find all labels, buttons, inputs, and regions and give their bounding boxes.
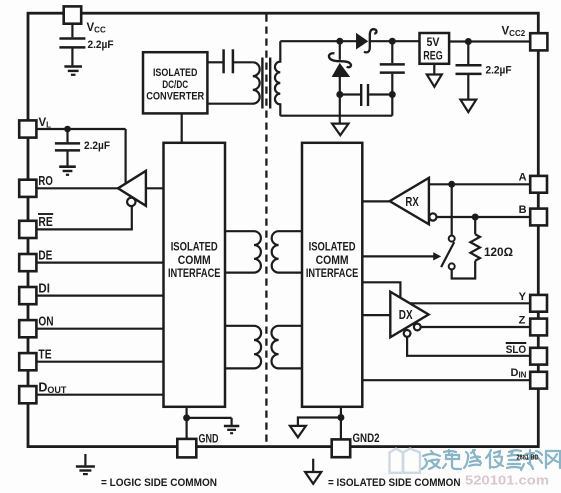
wire ON xyxy=(36,328,163,330)
op-amp U2 receiver buffer xyxy=(118,171,146,206)
pin ON xyxy=(19,320,36,337)
isolated common at GND2 xyxy=(290,426,306,437)
svg-text:2.2µF: 2.2µF xyxy=(486,64,512,76)
capacitor C1 2.2uF at VCC xyxy=(59,24,85,66)
wire buffer input from comm block xyxy=(146,187,164,189)
node VL cap tap xyxy=(64,126,71,133)
svg-text:RO: RO xyxy=(38,174,53,188)
wire switch actuator xyxy=(362,255,434,257)
capacitor C6 2.2uF at VCC2 xyxy=(456,42,482,100)
svg-text:Y: Y xyxy=(519,291,527,303)
svg-text:DX: DX xyxy=(399,308,413,322)
svg-text:ISOLATED: ISOLATED xyxy=(171,241,218,253)
RX inverting bubble xyxy=(429,213,436,220)
label 2.2uF C1 xyxy=(88,39,114,51)
svg-text:Z: Z xyxy=(519,315,526,327)
transformer T2 left winding xyxy=(225,231,261,272)
isolated common at C6 xyxy=(460,100,476,113)
svg-text:VL: VL xyxy=(39,117,52,130)
label 2881 BD xyxy=(517,455,539,462)
svg-text:RE: RE xyxy=(38,215,52,229)
svg-text:ON: ON xyxy=(38,315,53,329)
svg-text:REG: REG xyxy=(423,51,443,63)
pin DOUT xyxy=(19,386,36,403)
ground at C2 xyxy=(59,167,76,175)
watermark chinese characters xyxy=(422,450,560,470)
label Y xyxy=(519,291,527,303)
wire B line xyxy=(437,216,531,218)
switch S1 bottom contact xyxy=(449,263,455,269)
wire DIN line xyxy=(362,379,530,381)
legend isolated side common triangle xyxy=(305,459,321,484)
left isolated comm interface block U5 xyxy=(164,143,226,407)
wire RE to buffer enable xyxy=(36,205,131,229)
pin Z xyxy=(530,319,547,336)
wire RO to buffer xyxy=(36,187,118,189)
DX bubble Z xyxy=(414,324,421,331)
wire diode to 5V REG xyxy=(369,40,420,42)
switch actuator arrowhead xyxy=(433,252,441,260)
node GND tap xyxy=(183,414,190,421)
label ON xyxy=(38,315,53,329)
svg-text:TE: TE xyxy=(38,348,51,362)
wire RX output to right block xyxy=(362,200,389,202)
label 120 ohm xyxy=(484,247,513,259)
label TE xyxy=(38,348,51,362)
label VCC xyxy=(87,22,106,35)
svg-text:520101.com: 520101.com xyxy=(465,474,549,488)
svg-text:DIN: DIN xyxy=(511,367,527,380)
label 2.2uF C2 xyxy=(84,140,110,152)
label isolated side common xyxy=(328,477,461,489)
svg-text:120Ω: 120Ω xyxy=(484,247,513,259)
transformer T2 right winding xyxy=(272,231,302,272)
diode D1 switching rectifier xyxy=(357,29,377,52)
capacitor C4 horizontal xyxy=(340,84,393,106)
svg-text:GND2: GND2 xyxy=(353,431,380,445)
label VL xyxy=(39,117,52,130)
wire DX input upper xyxy=(362,282,400,297)
wire DE xyxy=(36,262,163,264)
label GND2 xyxy=(353,431,380,445)
IC boundary xyxy=(28,13,538,446)
wire left block to GND xyxy=(186,407,188,439)
wire A line xyxy=(429,183,530,185)
node VCC2 cap tap xyxy=(465,38,472,45)
op-amp DX driver xyxy=(390,292,428,338)
wire GND tap to logic ground xyxy=(187,417,232,419)
svg-text:VCC2: VCC2 xyxy=(502,26,526,39)
capacitor C2 2.2uF at VL xyxy=(55,129,80,166)
pin VL xyxy=(19,120,36,137)
DX bubble SLO xyxy=(404,330,411,337)
node zener anode xyxy=(336,91,343,98)
svg-text:CONVERTER: CONVERTER xyxy=(146,91,204,103)
wire rectifier bottom rail xyxy=(280,115,392,117)
svg-text:A: A xyxy=(519,172,527,184)
svg-text:RX: RX xyxy=(405,195,419,209)
node rectifier top left xyxy=(336,38,343,45)
pin GND xyxy=(177,439,196,458)
wire rectifier top rail xyxy=(280,40,357,42)
watermark book icon xyxy=(390,449,421,473)
wire cap to transformer primary xyxy=(234,61,253,63)
label DE xyxy=(38,249,52,263)
wire switch bottom to resistor xyxy=(452,261,476,279)
svg-text:2.2µF: 2.2µF xyxy=(84,140,110,152)
svg-text:5V: 5V xyxy=(427,37,440,49)
label A xyxy=(519,172,527,184)
pin SLO xyxy=(530,348,547,365)
wire GND2 tap to isolated common xyxy=(298,418,341,426)
svg-text:INTERFACE: INTERFACE xyxy=(306,268,359,280)
label SLO with overline xyxy=(506,343,527,356)
wire VL to receiver buffer xyxy=(124,129,126,184)
label GND xyxy=(199,432,219,446)
ground at C1 xyxy=(64,67,82,75)
label B xyxy=(519,204,527,216)
wire DX input lower xyxy=(362,314,390,316)
wire right block to GND2 xyxy=(340,407,342,440)
wire SLO line xyxy=(407,337,530,356)
capacitor C3 series xyxy=(224,49,233,73)
pin B xyxy=(530,209,547,226)
switch S1 top contact xyxy=(449,236,455,242)
zener diode D2 switching xyxy=(329,41,351,116)
node C4 right xyxy=(389,91,396,98)
svg-text:VCC: VCC xyxy=(87,22,106,35)
label DIN xyxy=(511,367,527,380)
isolated common at 5V REG xyxy=(427,64,442,87)
wire DOUT xyxy=(36,394,163,396)
svg-text:COMM: COMM xyxy=(178,255,211,267)
label VCC2 xyxy=(502,26,526,39)
wire Z line xyxy=(421,326,531,328)
wire VL rail xyxy=(36,128,125,130)
svg-text:2.2µF: 2.2µF xyxy=(88,39,114,51)
transformer T1 primary winding xyxy=(207,62,259,103)
label RO xyxy=(38,174,53,188)
pin RO xyxy=(19,180,36,197)
enable bubble on U2 xyxy=(127,198,135,206)
switch S1 blade xyxy=(441,242,454,267)
label DOUT xyxy=(38,381,67,396)
wire DC/DC to left comm block xyxy=(181,113,183,142)
svg-text:= LOGIC SIDE COMMON: = LOGIC SIDE COMMON xyxy=(101,477,217,489)
pin A xyxy=(530,176,547,193)
svg-text:DE: DE xyxy=(38,249,52,263)
svg-text:COMM: COMM xyxy=(316,255,349,267)
regulator U4 5V REG xyxy=(420,33,450,64)
svg-text:= ISOLATED SIDE COMMON: = ISOLATED SIDE COMMON xyxy=(328,477,461,489)
transformer T1 core xyxy=(262,58,270,109)
isolated common at rectifier xyxy=(332,116,348,136)
pin TE xyxy=(19,353,36,370)
pin DIN xyxy=(530,372,547,389)
pin RE xyxy=(19,221,36,238)
svg-text:DC/DC: DC/DC xyxy=(162,79,188,91)
label 2.2uF C6 xyxy=(486,64,512,76)
wire Y line xyxy=(410,302,530,304)
isolation barrier dashed line xyxy=(265,15,267,446)
logic ground symbol at GND xyxy=(224,418,239,433)
pin VCC2 xyxy=(530,33,547,50)
svg-text:INTERFACE: INTERFACE xyxy=(168,268,221,280)
label Z xyxy=(519,315,526,327)
label logic side common xyxy=(101,477,217,489)
svg-text:ISOLATED: ISOLATED xyxy=(153,67,198,79)
pin VCC xyxy=(64,6,81,23)
capacitor C5 vertical branch xyxy=(380,41,405,116)
wire DI xyxy=(36,295,163,297)
node GND2 tap xyxy=(337,414,344,421)
transformer T3 right winding xyxy=(272,326,303,369)
op-amp RX receiver xyxy=(390,178,429,224)
svg-text:ISOLATED: ISOLATED xyxy=(309,241,356,253)
pin DI xyxy=(19,287,36,304)
resistor R1 120 ohm xyxy=(470,217,480,261)
svg-text:DOUT: DOUT xyxy=(38,381,67,396)
label DI xyxy=(38,282,50,296)
svg-text:B: B xyxy=(519,204,527,216)
node B resistor tap xyxy=(472,214,479,221)
wire A tap down to switch xyxy=(451,184,453,235)
pin DE xyxy=(19,254,36,271)
label RE with overline xyxy=(38,214,53,229)
watermark 520101.com xyxy=(465,474,549,488)
svg-text:GND: GND xyxy=(199,432,219,446)
svg-text:DI: DI xyxy=(38,282,50,296)
node rectifier top right xyxy=(389,38,396,45)
transformer T3 left winding xyxy=(225,326,261,369)
legend logic side common ground xyxy=(76,454,95,474)
svg-text:2881 BD: 2881 BD xyxy=(517,455,539,462)
pin Y xyxy=(530,295,547,312)
transformer T1 secondary winding xyxy=(275,41,280,116)
isolated DC/DC converter block U3 xyxy=(143,52,207,113)
pin GND2 xyxy=(332,439,351,457)
node A switch tap xyxy=(448,181,455,188)
right isolated comm interface block U6 xyxy=(302,143,362,407)
wire TE xyxy=(36,361,163,363)
wire DC/DC output top xyxy=(207,61,222,63)
wire 5V REG to VCC2 xyxy=(449,40,530,42)
svg-text:SLO: SLO xyxy=(506,344,527,356)
